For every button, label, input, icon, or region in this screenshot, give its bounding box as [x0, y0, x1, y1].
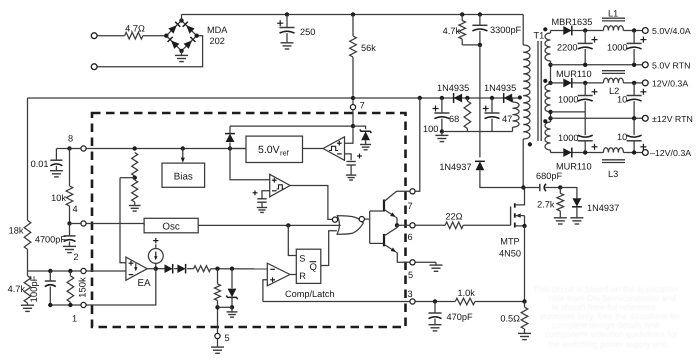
AC input terminal J2 [91, 64, 97, 70]
secondary winding S2 (12V) [545, 84, 550, 112]
svg-text:T1: T1 [534, 31, 545, 41]
wire Vcc to right pin 7 [415, 98, 419, 191]
label 470pF [447, 312, 473, 322]
secondary winding S1 (5V) [545, 31, 550, 62]
label Osc [162, 222, 180, 233]
wire D9 to L2 [572, 82, 603, 84]
pin 7 top bond wire [352, 100, 354, 104]
L2 core lines [602, 71, 625, 74]
svg-text:3300pF: 3300pF [490, 25, 522, 35]
resistor R12 10k [66, 149, 73, 224]
resistor R6 2.7k [557, 188, 564, 218]
pin8 internal rail [86, 148, 246, 150]
-12V line S3 to D10 [551, 152, 564, 154]
node pin3/C12 [433, 299, 437, 303]
label + of I1 [153, 238, 158, 243]
left rail from Vcc net [27, 98, 29, 220]
node C5/RTN [583, 63, 587, 67]
svg-text:5.0V: 5.0V [258, 144, 280, 156]
svg-text:MUR110: MUR110 [556, 69, 592, 79]
pin 2 internal wire to EA [86, 270, 126, 272]
label 10 C10 [617, 132, 627, 142]
node 100pF/pin2 [48, 269, 52, 273]
Vref buffer op-amp U2 [323, 137, 344, 161]
diode D6 1N4935 [504, 93, 513, 103]
latch Q output wire [321, 231, 337, 266]
label 1000 C7 [558, 95, 578, 105]
svg-text:Osc: Osc [162, 222, 180, 233]
node source/R8 [522, 299, 526, 303]
wire bridge top to DC+ rail [181, 15, 183, 21]
svg-text:1N4937: 1N4937 [439, 162, 471, 172]
pin 7 (Vc) terminal top [350, 105, 355, 110]
label 4.7k lower [8, 284, 26, 294]
diode D5 1N4935 [454, 93, 463, 103]
node D9/C7 [583, 81, 587, 85]
resistor R14 down [215, 269, 221, 308]
capacitor C12 470pF [429, 302, 442, 331]
node L2/C8 [632, 81, 636, 85]
ground below bridge [175, 51, 188, 62]
label L1 [608, 9, 618, 19]
output node dot [395, 223, 399, 227]
pin 7 terminal right [410, 189, 415, 194]
secondary stack wire S2-S3 [550, 112, 552, 122]
node C6/RTN [632, 63, 636, 67]
node pin8/0.01 [67, 146, 71, 150]
source node dot [522, 224, 526, 228]
svg-text:8: 8 [68, 134, 73, 144]
diode D10 MUR110 [563, 148, 572, 158]
diode D13 [177, 264, 185, 274]
label 1 [72, 314, 77, 324]
NOR gate U6 [337, 216, 363, 235]
label 7 top pin [360, 101, 365, 112]
wire D13 to R13 [187, 268, 194, 270]
wire snubber down to D7 [479, 45, 481, 157]
bias feed arrow [181, 149, 185, 163]
label R [299, 271, 306, 281]
label 18k [9, 226, 24, 236]
capacitor C15 4700pF [63, 224, 76, 253]
svg-text:150k: 150k [78, 277, 89, 298]
pin 4 terminal [81, 221, 86, 226]
5.0V RTN rail [551, 64, 643, 66]
label S [299, 254, 305, 264]
transistor Q3 base bar [383, 234, 385, 247]
node 150k/pin2 [68, 269, 72, 273]
capacitor C4 47 [485, 98, 500, 132]
node Vcc/R4 68 [465, 96, 469, 100]
resistor R2 56k upper lead [352, 15, 354, 37]
label 4.7k snubber [443, 26, 461, 36]
svg-text:5.0V/4.0A: 5.0V/4.0A [652, 26, 691, 36]
label Bias [174, 171, 193, 182]
label 3 [408, 289, 413, 299]
wire D8 to L1 [572, 30, 603, 32]
node 5V RTN tap [548, 63, 552, 67]
label 4.7Ω [125, 24, 145, 34]
wire Osc to latch S [288, 225, 296, 255]
U5 output to latch R [290, 274, 296, 276]
label + of C3 [433, 106, 439, 112]
label + of U3 cap [253, 190, 258, 195]
resistor R13 [194, 266, 211, 272]
svg-text:R: R [299, 271, 306, 281]
label + of U5 [270, 277, 275, 282]
resistor R9 18k [24, 220, 31, 249]
ground link wire [218, 306, 233, 308]
svg-text:5: 5 [408, 270, 413, 280]
svg-text:2200: 2200 [557, 43, 577, 53]
5.0Vref box [246, 136, 303, 162]
svg-text:MDA: MDA [207, 25, 228, 35]
phase dot S1 [543, 27, 547, 31]
svg-text:7: 7 [360, 101, 365, 112]
svg-text:68: 68 [449, 114, 459, 124]
resistor divider upper [132, 153, 138, 177]
Vcc net wire right section [353, 97, 518, 99]
capacitor C6 1000 [627, 31, 642, 65]
internal diode to pin7 rail [225, 126, 235, 148]
label 680pF [536, 171, 562, 181]
label + of C5 [592, 37, 598, 43]
label - of U3 [272, 190, 277, 192]
label + of C4 [483, 106, 489, 112]
terminal 5.0V/4.0A [642, 28, 648, 34]
NOR input bubble [332, 217, 337, 222]
dead-time comparator U3 [270, 174, 290, 197]
MOSFET Q1 gate bar [510, 207, 512, 226]
Q2 collector [384, 191, 410, 201]
zener diode on pin7 rail [353, 126, 371, 150]
label 100pF rotated [29, 275, 40, 302]
label 100 [423, 124, 438, 134]
label 5 right [408, 270, 413, 280]
svg-text:1: 1 [72, 314, 77, 324]
capacitor on U3 minus [257, 199, 267, 213]
wire R13 to nodes [211, 268, 268, 270]
label 10k [51, 193, 66, 203]
label 1N4935 first [437, 83, 469, 93]
svg-text:1N4937: 1N4937 [587, 203, 619, 213]
line-A wire (winding to C7/C9) [551, 111, 586, 113]
capacitor C14 0.01 [50, 149, 70, 177]
inductor L3 [603, 148, 623, 153]
label Qbar [310, 262, 317, 273]
U2 minus input wire [345, 154, 352, 160]
capacitor C11 680pF [540, 184, 546, 191]
label 3300pF [490, 25, 522, 35]
pin 3 internal wire [263, 301, 410, 303]
svg-text:100: 100 [423, 124, 438, 134]
diode D11 1N4937 [572, 198, 582, 207]
node C3/ground rail [440, 129, 444, 133]
label 250 [300, 27, 315, 37]
capacitor C2 3300pF [472, 15, 487, 45]
label 7 right [408, 201, 413, 211]
secondary stack wire S1-S2 [550, 61, 552, 83]
svg-text:MBR1635: MBR1635 [552, 17, 593, 27]
svg-text:±12V RTN: ±12V RTN [652, 114, 693, 124]
ground of aux rail [435, 132, 448, 142]
svg-text:7: 7 [408, 201, 413, 211]
pin 3 terminal [410, 299, 415, 304]
node D8/C5 [583, 28, 587, 32]
error amp EA U4 [126, 257, 147, 280]
EA internal arrow [134, 264, 137, 272]
svg-text:4: 4 [73, 204, 78, 214]
label L2 [609, 86, 619, 96]
node 100pF/pin1 [48, 303, 52, 307]
ground of R6 [554, 218, 567, 224]
zener diode Z2 [226, 269, 237, 308]
bridge corner junction top [179, 18, 183, 22]
label 8 [68, 134, 73, 144]
node 12V tap [548, 81, 552, 85]
svg-text:10: 10 [617, 132, 627, 142]
diode D12 [165, 264, 173, 274]
capacitor C8 10 12V [627, 83, 642, 118]
label + of C9 [592, 144, 598, 150]
svg-text:1.0k: 1.0k [458, 288, 476, 298]
node rail/C2 3300pF [478, 12, 482, 16]
label 2.7k [537, 200, 555, 210]
Osc output wire [198, 224, 340, 226]
svg-text:6: 6 [408, 232, 413, 242]
label 47 [502, 114, 512, 124]
Q3 emitter [384, 244, 410, 262]
node zener tap [230, 267, 234, 271]
pin 4 net wire [70, 223, 81, 225]
svg-text:22Ω: 22Ω [445, 212, 462, 222]
wire D7 to drain node [480, 170, 521, 187]
resistor R11 150k [67, 271, 74, 305]
svg-text:MUR110: MUR110 [556, 162, 592, 172]
node L3/C10 [632, 150, 636, 154]
aux bottom rail [442, 131, 513, 133]
svg-text:1000: 1000 [558, 95, 578, 105]
pin 4 internal wire [86, 224, 144, 226]
label 1N4937 clamp [439, 162, 471, 172]
resistor 4.7Ω (inrush) [125, 32, 143, 39]
primary phase dot [528, 142, 532, 146]
primary winding of T1 [523, 15, 530, 139]
svg-text:100pF: 100pF [29, 275, 40, 302]
label 4700pF [35, 235, 67, 245]
svg-text:1N4935: 1N4935 [437, 83, 469, 93]
svg-text:–12V/0.3A: –12V/0.3A [650, 148, 691, 158]
label - of U2 [337, 153, 342, 155]
wire primary to drain [522, 139, 524, 188]
square-wave glyph in U3 [277, 185, 285, 189]
MOSFET Q1 drain lead [515, 188, 525, 205]
current source I1 [148, 249, 163, 264]
terminal -12V/0.3A [642, 150, 648, 156]
label 5.0V RTN [652, 61, 690, 71]
+-12V RTN rail [551, 117, 643, 119]
label - of U5 [270, 268, 275, 270]
bridge diode D2 (top-right edge) [183, 22, 195, 34]
label 5.0V/4.0A [652, 26, 691, 36]
wire J2 to bridge right corner [97, 36, 203, 67]
wire L2 to 12V terminal [623, 82, 642, 84]
label 4N50 [499, 249, 521, 259]
node rail/R3 4.7k [460, 12, 464, 16]
aux winding of T1 [512, 98, 519, 132]
bridge corner junction left [164, 34, 168, 38]
svg-text:56k: 56k [361, 43, 376, 53]
label EA [138, 278, 152, 289]
capacitor on U2 minus [346, 162, 356, 181]
svg-text:ref: ref [280, 148, 290, 157]
comparator U5 [267, 263, 290, 286]
label + of U2 [337, 141, 342, 146]
svg-text:1N4935: 1N4935 [484, 83, 516, 93]
wire Vref to buffer [303, 148, 324, 150]
svg-text:202: 202 [210, 36, 225, 46]
MOSFET Q1 channel segments [514, 203, 516, 227]
wire pin7 into IC [352, 110, 354, 127]
svg-text:4.7Ω: 4.7Ω [125, 24, 145, 34]
node Osc/latch S [286, 223, 290, 227]
wire tap down to EA [120, 178, 126, 263]
MOSFET Q1 body arrow [516, 213, 525, 225]
wire R2 to Vcc node [352, 57, 354, 96]
svg-text:47: 47 [502, 114, 512, 124]
node zener/ground link [230, 305, 234, 309]
wire Vref box feed [230, 148, 246, 150]
label 1N4937 gate clamp [587, 203, 619, 213]
capacitor C1 250 bulk [280, 15, 295, 50]
Bias box [162, 163, 205, 187]
bridge diode D4 (bottom-right edge) [184, 37, 196, 49]
terminal 5.0V RTN [642, 62, 648, 68]
T1 core line right [540, 41, 542, 141]
current source supply stem [155, 244, 157, 248]
svg-text:680pF: 680pF [536, 171, 562, 181]
svg-text:4700pF: 4700pF [35, 235, 67, 245]
pin 8 terminal [81, 146, 86, 151]
node Vref feed [228, 146, 232, 150]
svg-text:2: 2 [74, 252, 79, 262]
svg-text:5.0V RTN: 5.0V RTN [652, 61, 690, 71]
wire S2 tap to D9 [551, 82, 564, 84]
label 56k [361, 43, 376, 53]
wire D12 to D13 [174, 268, 177, 270]
label 1N4935 second [484, 83, 516, 93]
svg-text:EA: EA [138, 278, 152, 289]
wire R1 to bridge [143, 35, 166, 37]
aux winding phase dot [518, 95, 522, 99]
wire S1 top to D8 [551, 30, 564, 32]
label + of U3 [272, 178, 277, 183]
node line-A tap [548, 110, 552, 114]
label MUR110 second [556, 162, 592, 172]
pin 1 net wire [50, 304, 80, 306]
label 6 [408, 232, 413, 242]
wire J1 to R1 [97, 35, 125, 37]
label 5.0Vref [258, 144, 290, 158]
label 1.0k [458, 288, 476, 298]
node C8-C10/RTN [632, 116, 636, 120]
wire D10 to L3 [572, 152, 603, 154]
label 0.5Ω [500, 314, 520, 324]
node +-12V RTN tap [548, 116, 552, 120]
wire 0.01 node to pin8 [70, 148, 81, 150]
label + of C6 [640, 37, 646, 43]
label 0.01 [31, 159, 49, 169]
resistor R3 4.7k snubber [459, 15, 466, 45]
wire node to D11 [560, 188, 577, 199]
L1 core lines [602, 18, 625, 21]
node Vcc/C3 [440, 96, 444, 100]
U5 plus input wire [263, 280, 267, 302]
svg-text:L1: L1 [608, 9, 618, 19]
node C11/R6 [558, 185, 562, 189]
svg-text:S: S [299, 254, 305, 264]
T1 core line left [537, 41, 539, 141]
U3 output wire to NOR [290, 186, 332, 220]
wire R5 to gate [463, 224, 510, 226]
label 1000 C9 [558, 133, 578, 143]
ground of R8 [518, 333, 531, 339]
U2 plus input wire [345, 128, 354, 143]
svg-text:the switching power supply uni: the switching power supply unit. [548, 339, 669, 349]
svg-text:Q: Q [310, 262, 317, 273]
svg-text:470pF: 470pF [447, 312, 473, 322]
capacitor C10 10 -12V [627, 118, 642, 152]
resistor R5 22Ω [445, 222, 463, 229]
wire drain node to C11 [523, 187, 539, 189]
node divider top [133, 146, 137, 150]
transistor Q2 base bar [383, 200, 385, 212]
node 150k/pin1 [68, 303, 72, 307]
node D10/C9 [583, 150, 587, 154]
label 68 [449, 114, 459, 124]
phase dot S3 [543, 119, 547, 123]
resistor R8 0.5Ω [521, 302, 528, 334]
capacitor C7 1000 12V [578, 83, 593, 112]
bridge rectifier MDA202 outline [166, 21, 196, 51]
node R14/ground link [215, 305, 219, 309]
node Vcc/C4 47 [490, 96, 494, 100]
svg-text:12V/0.3A: 12V/0.3A [652, 79, 688, 89]
svg-text:component selection guidelines: component selection guidelines for [545, 329, 677, 339]
wire R3 to C2 bottom [462, 44, 480, 46]
label 10 C8 [617, 95, 627, 105]
svg-text:10: 10 [617, 95, 627, 105]
label 1000 C6 [607, 43, 627, 53]
svg-text:0.01: 0.01 [31, 159, 49, 169]
Vcc net junction at 56k [351, 96, 355, 100]
bridge diode D1 (left-top edge) [168, 22, 180, 34]
svg-text:3: 3 [408, 289, 413, 299]
U3 minus input wire [262, 191, 270, 199]
node L1/C6 [632, 28, 636, 32]
label 22Ω [445, 212, 462, 222]
label -12V/0.3A [650, 148, 691, 158]
DC+ top rail [182, 14, 524, 16]
bridge corner junction right [195, 34, 199, 38]
wire Vcc-int to comparator plus [230, 149, 270, 180]
capacitor C3 100 aux [434, 98, 449, 132]
node snubber bottom [478, 43, 482, 47]
label + of EA [129, 261, 134, 266]
resistor R2 56k [350, 36, 357, 57]
node rail/C1 [285, 12, 289, 16]
Q3 collector [384, 225, 397, 236]
